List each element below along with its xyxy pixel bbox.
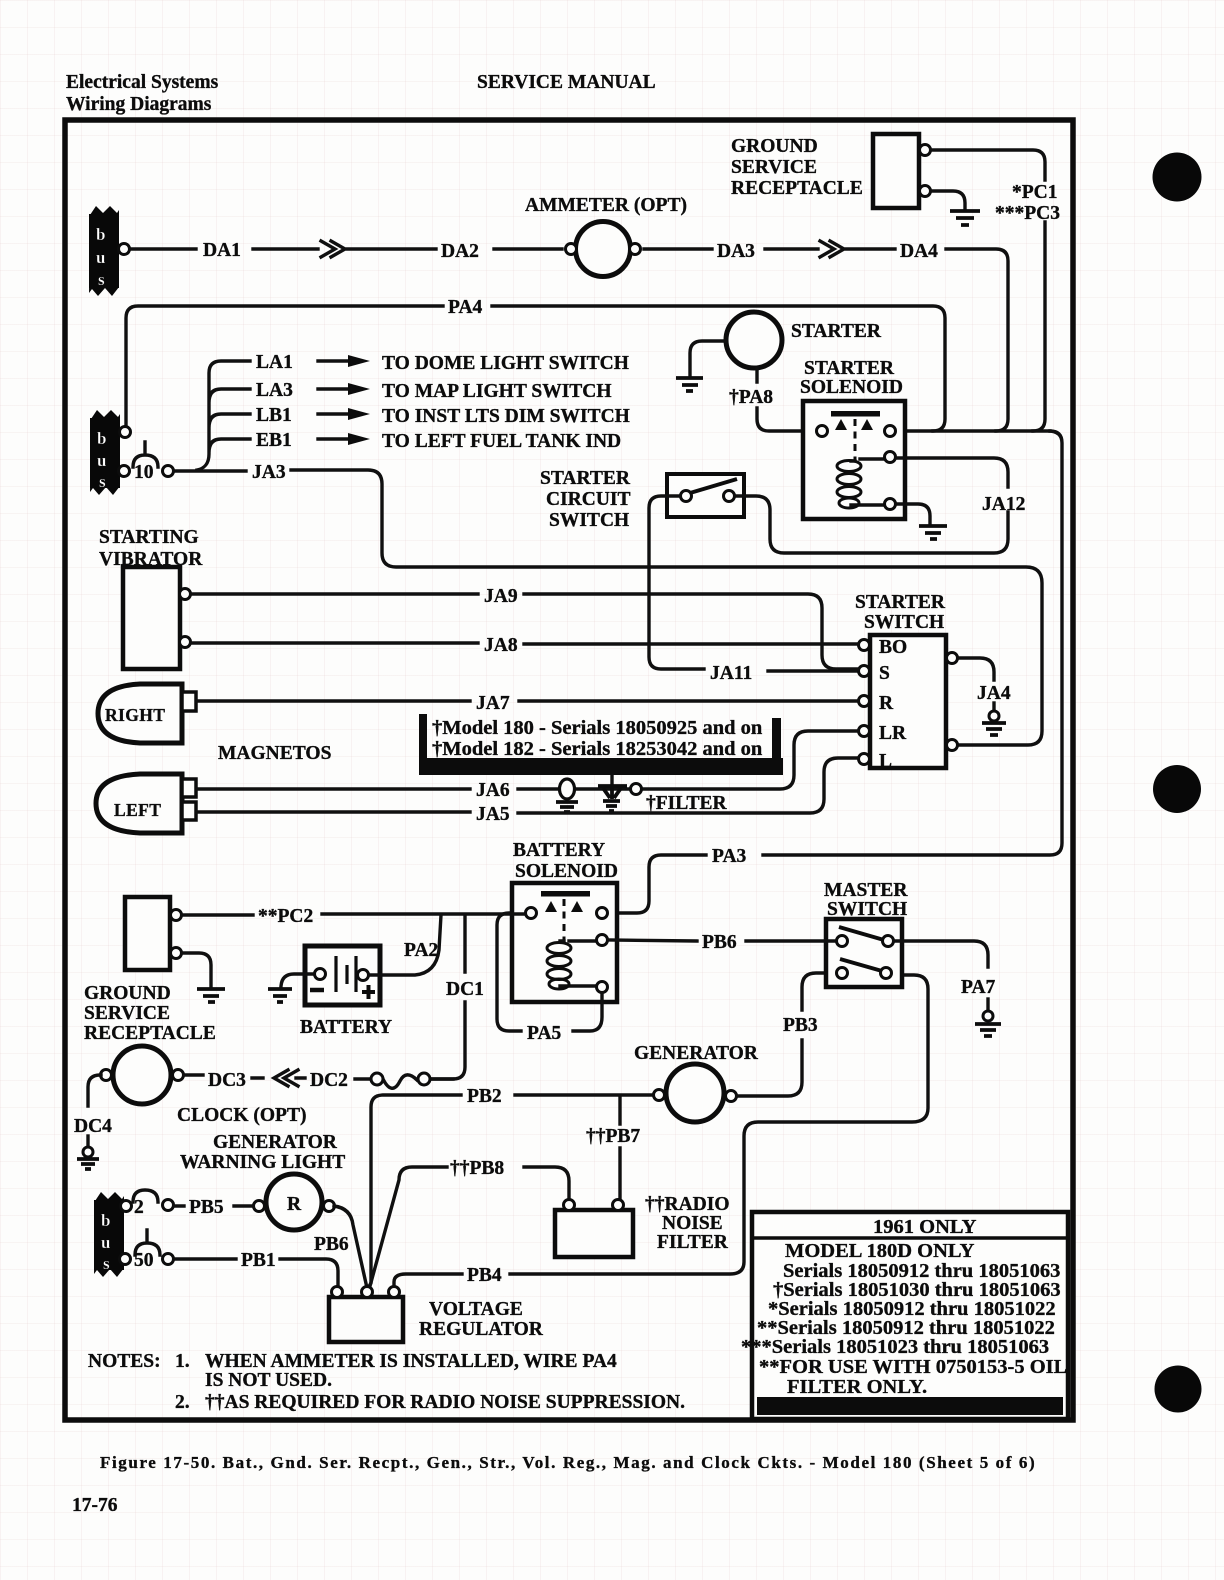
svg-text:SERVICE: SERVICE xyxy=(84,1003,170,1024)
battery solenoid xyxy=(512,840,618,1002)
svg-text:DA3: DA3 xyxy=(717,241,755,262)
svg-text:JA11: JA11 xyxy=(710,663,752,684)
svg-text:TO MAP LIGHT SWITCH: TO MAP LIGHT SWITCH xyxy=(382,381,612,402)
svg-text:AMMETER (OPT): AMMETER (OPT) xyxy=(525,195,687,216)
starting vibrator xyxy=(99,527,203,669)
wire PA3 xyxy=(608,431,1062,913)
wire JA12 xyxy=(735,458,1008,553)
svg-text:u: u xyxy=(96,248,105,267)
svg-text:**FOR USE WITH 0750153-5 OIL: **FOR USE WITH 0750153-5 OIL xyxy=(759,1356,1067,1378)
arrow LB1 xyxy=(318,412,348,415)
wire PB8 xyxy=(370,1167,569,1286)
wire PA7 xyxy=(894,941,988,967)
svg-text:Electrical Systems: Electrical Systems xyxy=(66,72,219,93)
svg-text:TO LEFT FUEL TANK IND: TO LEFT FUEL TANK IND xyxy=(382,431,621,452)
svg-text:PA5: PA5 xyxy=(527,1023,562,1044)
model note box xyxy=(419,714,783,775)
svg-text:1961 ONLY: 1961 ONLY xyxy=(873,1216,977,1238)
wire PA4 riser and horizontal xyxy=(126,306,945,431)
wire JA7 xyxy=(197,699,858,702)
svg-text:†FILTER: †FILTER xyxy=(646,793,727,814)
svg-text:WARNING LIGHT: WARNING LIGHT xyxy=(180,1152,345,1173)
starter switch xyxy=(855,592,958,772)
fuse 10 xyxy=(133,442,174,483)
svg-text:††AS REQUIRED FOR RADIO NOISE: ††AS REQUIRED FOR RADIO NOISE SUPPRESSIO… xyxy=(205,1392,685,1413)
svg-text:b: b xyxy=(96,225,105,244)
svg-text:RECEPTACLE: RECEPTACLE xyxy=(84,1023,216,1044)
svg-text:1.: 1. xyxy=(175,1351,190,1372)
wire battery to ground xyxy=(281,974,314,986)
svg-text:s: s xyxy=(103,1254,110,1273)
ground (battery) xyxy=(268,989,292,1002)
svg-text:BATTERY: BATTERY xyxy=(300,1017,392,1038)
svg-text:***PC3: ***PC3 xyxy=(995,203,1060,224)
svg-text:STARTER: STARTER xyxy=(540,468,631,489)
ground (top receptacle) xyxy=(950,211,980,225)
svg-text:**PC2: **PC2 xyxy=(258,906,313,927)
svg-text:*PC1: *PC1 xyxy=(1012,182,1058,203)
svg-text:MASTER: MASTER xyxy=(824,880,908,901)
wire JA3 xyxy=(174,470,1042,745)
svg-text:†Model 182 - Serials 18253042: †Model 182 - Serials 18253042 and on xyxy=(432,738,763,760)
svg-text:STARTER: STARTER xyxy=(804,358,895,379)
svg-text:PB5: PB5 xyxy=(189,1197,224,1218)
bus bar 1 xyxy=(89,206,130,296)
wire PA5 xyxy=(497,913,602,1031)
1961 only box xyxy=(741,1212,1068,1419)
svg-text:s: s xyxy=(98,270,105,289)
svg-text:NOISE: NOISE xyxy=(662,1213,723,1234)
svg-text:BO: BO xyxy=(879,637,907,658)
wire PB4 xyxy=(394,975,928,1286)
svg-text:DC1: DC1 xyxy=(446,979,484,1000)
svg-text:s: s xyxy=(99,472,106,491)
arrow LA1 xyxy=(318,359,348,362)
wire solenoid coil to ground xyxy=(896,504,930,523)
starter solenoid xyxy=(800,358,905,519)
svg-text:SOLENOID: SOLENOID xyxy=(515,861,618,882)
generator warning light xyxy=(180,1132,345,1230)
wire PB6 (warning light) xyxy=(334,1206,367,1288)
connector chevron DC3/DC2 xyxy=(274,1070,305,1086)
ground (starter solenoid) xyxy=(919,526,947,539)
wire DA2 xyxy=(494,247,562,250)
svg-text:SOLENOID: SOLENOID xyxy=(800,377,903,398)
svg-text:JA12: JA12 xyxy=(982,494,1025,515)
svg-text:PB1: PB1 xyxy=(241,1250,276,1271)
svg-text:PA3: PA3 xyxy=(712,846,747,867)
svg-text:DA4: DA4 xyxy=(900,241,938,262)
svg-text:S: S xyxy=(879,663,890,684)
svg-text:L: L xyxy=(879,751,892,772)
arrow EB1 xyxy=(318,437,348,440)
fuse 2 xyxy=(133,1190,174,1218)
svg-text:JA5: JA5 xyxy=(476,804,510,825)
ammeter (OPT) xyxy=(525,195,687,277)
svg-text:2: 2 xyxy=(134,1197,144,1218)
svg-text:SWITCH: SWITCH xyxy=(864,612,944,633)
svg-text:SWITCH: SWITCH xyxy=(549,510,629,531)
wire PA8 xyxy=(757,369,816,431)
svg-text:CIRCUIT: CIRCUIT xyxy=(546,489,631,510)
wire PB2 xyxy=(368,1095,653,1288)
ground (PA7) xyxy=(975,999,1001,1036)
wire PC2 xyxy=(182,914,525,915)
wire DC1 xyxy=(430,915,465,1079)
svg-text:SERVICE: SERVICE xyxy=(731,157,817,178)
ground (starter) xyxy=(676,378,703,391)
wire receptacle to ground xyxy=(182,953,211,986)
svg-text:TO DOME LIGHT SWITCH: TO DOME LIGHT SWITCH xyxy=(382,353,629,374)
ground (JA4) xyxy=(982,703,1006,735)
wire DC4 xyxy=(88,1075,101,1106)
branch trunk wire to light switches xyxy=(197,361,250,470)
svg-text:RIGHT: RIGHT xyxy=(105,705,165,725)
voltage regulator xyxy=(329,1287,544,1343)
wire JA8 xyxy=(191,643,858,644)
svg-text:JA6: JA6 xyxy=(476,780,510,801)
svg-text:CLOCK (OPT): CLOCK (OPT) xyxy=(177,1105,306,1126)
svg-text:JA8: JA8 xyxy=(484,635,518,656)
svg-text:b: b xyxy=(101,1211,110,1230)
left magneto xyxy=(96,774,196,833)
svg-text:JA9: JA9 xyxy=(484,586,518,607)
svg-text:STARTER: STARTER xyxy=(855,592,946,613)
svg-text:††RADIO: ††RADIO xyxy=(645,1194,730,1215)
wire starter to ground xyxy=(690,341,726,375)
filter terminal xyxy=(631,784,642,795)
svg-text:DC3: DC3 xyxy=(208,1070,246,1091)
svg-text:MAGNETOS: MAGNETOS xyxy=(218,743,332,764)
svg-text:PB3: PB3 xyxy=(783,1015,818,1036)
svg-text:DA1: DA1 xyxy=(203,240,241,261)
svg-text:LA1: LA1 xyxy=(256,352,293,373)
svg-text:R: R xyxy=(879,693,894,714)
svg-text:LB1: LB1 xyxy=(256,405,292,426)
svg-text:R: R xyxy=(287,1194,302,1215)
svg-text:JA4: JA4 xyxy=(977,683,1011,704)
wire PC1/PC3 from receptacle to solenoid node xyxy=(931,150,1045,431)
header: Electrical Systems / Wiring Diagrams xyxy=(66,72,219,115)
svg-text:GENERATOR: GENERATOR xyxy=(634,1043,759,1064)
svg-text:u: u xyxy=(101,1233,110,1252)
svg-text:BATTERY: BATTERY xyxy=(513,840,605,861)
radio noise filter xyxy=(555,1194,730,1257)
svg-text:EB1: EB1 xyxy=(256,430,292,451)
svg-text:FILTER ONLY.: FILTER ONLY. xyxy=(787,1376,927,1398)
wire PA2 xyxy=(369,915,441,975)
wire JA5 xyxy=(197,758,858,813)
svg-text:17-76: 17-76 xyxy=(72,1495,118,1516)
svg-text:LEFT: LEFT xyxy=(114,800,161,820)
fuse 50 xyxy=(134,1230,174,1271)
svg-text:PA4: PA4 xyxy=(448,297,483,318)
svg-text:JA7: JA7 xyxy=(476,693,510,714)
wire DC3 xyxy=(184,1075,263,1078)
svg-text:STARTING: STARTING xyxy=(99,527,199,548)
svg-text:u: u xyxy=(97,451,106,470)
connector chevron DA3/DA4 xyxy=(820,241,895,257)
svg-text:DC4: DC4 xyxy=(74,1116,112,1137)
svg-text:b: b xyxy=(97,429,106,448)
svg-text:STARTER: STARTER xyxy=(791,321,882,342)
svg-text:JA3: JA3 xyxy=(252,462,286,483)
svg-text:PB6: PB6 xyxy=(314,1234,349,1255)
svg-text:LR: LR xyxy=(879,723,907,744)
wire DA4 tail to solenoid node xyxy=(946,249,1008,431)
svg-text:††PB8: ††PB8 xyxy=(450,1158,504,1179)
wire PB1 xyxy=(174,1259,338,1286)
svg-text:SERVICE MANUAL: SERVICE MANUAL xyxy=(477,72,656,93)
wire JA4 xyxy=(958,658,994,680)
svg-text:RECEPTACLE: RECEPTACLE xyxy=(731,178,863,199)
battery xyxy=(300,946,392,1038)
svg-text:MODEL 180D ONLY: MODEL 180D ONLY xyxy=(785,1240,975,1262)
svg-text:PA2: PA2 xyxy=(404,940,438,961)
master switch xyxy=(824,880,908,987)
filter capacitor 2 xyxy=(598,776,627,811)
svg-text:DC2: DC2 xyxy=(310,1070,348,1091)
wire JA9 xyxy=(191,594,858,669)
ground (DC4) xyxy=(77,1136,99,1169)
svg-text:REGULATOR: REGULATOR xyxy=(419,1319,544,1340)
svg-text:GROUND: GROUND xyxy=(84,983,171,1004)
svg-text:2.: 2. xyxy=(175,1392,190,1413)
svg-text:NOTES:: NOTES: xyxy=(88,1351,161,1372)
bus bar 2 xyxy=(90,410,131,495)
svg-text:FILTER: FILTER xyxy=(657,1232,729,1253)
wire PB3 xyxy=(737,973,836,1096)
right magneto xyxy=(98,684,196,743)
filter capacitor 1 xyxy=(556,779,578,812)
starter circuit switch xyxy=(540,468,744,531)
svg-text:†Model 180 - Serials 18050925: †Model 180 - Serials 18050925 and on xyxy=(432,717,763,739)
svg-text:VOLTAGE: VOLTAGE xyxy=(429,1299,523,1320)
svg-text:IS NOT USED.: IS NOT USED. xyxy=(205,1370,332,1391)
svg-text:PB2: PB2 xyxy=(467,1086,502,1107)
svg-text:WHEN AMMETER IS INSTALLED, WIR: WHEN AMMETER IS INSTALLED, WIRE PA4 xyxy=(205,1351,617,1372)
ground service receptacle (top) xyxy=(731,134,931,208)
svg-text:***Serials 18051023 thru 18051: ***Serials 18051023 thru 18051063 xyxy=(741,1336,1049,1358)
svg-text:DA2: DA2 xyxy=(441,241,479,262)
svg-text:10: 10 xyxy=(134,462,154,483)
generator xyxy=(634,1043,759,1122)
svg-text:PA7: PA7 xyxy=(961,977,996,998)
wire PB5 xyxy=(174,1204,253,1207)
ground (left receptacle) xyxy=(197,989,225,1002)
svg-text:GENERATOR: GENERATOR xyxy=(213,1132,338,1153)
svg-text:Wiring Diagrams: Wiring Diagrams xyxy=(66,94,212,115)
bus bar 3 xyxy=(94,1192,132,1277)
fuse link DC2 xyxy=(355,1073,453,1088)
svg-text:LA3: LA3 xyxy=(256,380,293,401)
svg-text:PB4: PB4 xyxy=(467,1265,502,1286)
clock (OPT) xyxy=(101,1046,307,1126)
wire PB6 (solenoid to master switch) xyxy=(608,940,836,941)
svg-text:GROUND: GROUND xyxy=(731,136,818,157)
wire DA3 xyxy=(644,247,818,250)
wire DA1 xyxy=(130,247,318,250)
wire JA11 xyxy=(649,496,858,671)
arrow LA3 xyxy=(318,387,348,390)
svg-text:††PB7: ††PB7 xyxy=(586,1126,640,1147)
wire receptacle to ground xyxy=(931,191,965,209)
connector chevron DA1/DA2 xyxy=(321,241,436,257)
svg-text:PB6: PB6 xyxy=(702,932,737,953)
wire PB7 xyxy=(618,1097,621,1199)
svg-text:†PA8: †PA8 xyxy=(729,387,773,408)
svg-text:50: 50 xyxy=(134,1250,154,1271)
node wire at starter solenoid right contact xyxy=(896,429,1050,432)
wire JA6 xyxy=(197,731,858,789)
svg-text:TO INST LTS DIM SWITCH: TO INST LTS DIM SWITCH xyxy=(382,406,630,427)
notes xyxy=(88,1351,685,1413)
svg-text:Figure 17-50. Bat., Gnd. Ser.: Figure 17-50. Bat., Gnd. Ser. Recpt., Ge… xyxy=(100,1453,1036,1472)
ground service receptacle (left) xyxy=(84,897,216,1044)
starter motor xyxy=(726,312,882,368)
